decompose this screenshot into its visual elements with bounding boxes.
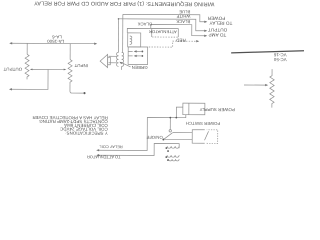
note: relay specifications text (32, 115, 108, 136)
relay contact 1 (141, 55, 143, 57)
arrow to attenuator (96, 154, 99, 156)
wire: input pot end lead to terminal dot (70, 85, 83, 94)
svg-text:TO ATTENUATOR: TO ATTENUATOR (87, 154, 121, 159)
svg-text:GREEN: GREEN (132, 65, 148, 70)
coil L1 (167, 146, 179, 148)
potentiometer R1 INPUT (69, 44, 71, 60)
potentiometer R2 OUTPUT (26, 43, 28, 54)
power supply PS1 box (183, 103, 205, 115)
svg-text:ATTENUATOR: ATTENUATOR (149, 29, 177, 34)
switch S1 blade + terminals (173, 132, 192, 134)
scan artifact: dark page rule (231, 50, 304, 53)
svg-text:LA-6: LA-6 (52, 34, 62, 39)
svg-text:RED: RED (176, 38, 186, 43)
svg-text:BLACK: BLACK (138, 22, 152, 27)
svg-text:POWER: POWER (207, 16, 225, 21)
wire: wiper link between pots (31, 68, 65, 70)
svg-text:WIRING REQUIREMENTS: (1) PAIR: WIRING REQUIREMENTS: (1) PAIR FOR AUDIO … (34, 0, 215, 7)
wire blue vertical to transformer (122, 14, 124, 52)
wire: lead to relay coil / power supply (node A) (98, 114, 186, 150)
svg-text:BLACK: BLACK (176, 19, 190, 24)
svg-text:ON/OFF: ON/OFF (146, 135, 163, 140)
resistor R3 VC volume control (270, 69, 275, 108)
svg-text:OUTPUT: OUTPUT (208, 27, 228, 32)
coil L2 (167, 155, 179, 157)
speaker LS1 (108, 57, 111, 65)
power switch box (dashed left part) (192, 130, 205, 144)
whole schematic drawn readable, page is an upside-down scan (3, 0, 305, 162)
svg-text:RELAY COIL: RELAY COIL (99, 144, 123, 149)
transformer T1 secondary winding (117, 52, 119, 66)
wire WHITE trunk + OUTPUT arrow (118, 19, 206, 31)
svg-text:VC-16: VC-16 (273, 52, 286, 57)
wire: tap to bottom rail with arrow (10, 69, 48, 89)
switch slash (205, 131, 209, 140)
relay K1 coil compartment (128, 33, 141, 47)
svg-text:INPUT: INPUT (74, 63, 88, 68)
transformer T1 primary winding (122, 52, 124, 66)
wire: lead to attenuator (node B) (98, 143, 180, 155)
svg-text:POWER SWITCH: POWER SWITCH (186, 121, 220, 126)
wire: VC wiper arrow (244, 84, 267, 86)
relay K1 coil winding (130, 36, 132, 44)
svg-text:BLUE: BLUE (179, 9, 190, 14)
wire: L-pad top rail with end arrows (10, 42, 96, 44)
transformer secondary stub (121, 66, 123, 69)
wire: white vertical to transformer + junction dot (117, 19, 119, 52)
svg-text:POWER SUPPLY: POWER SUPPLY (199, 107, 234, 112)
relay contact 2 (141, 51, 143, 53)
wire BLUE trunk + TO RELAY POWER arrow (123, 14, 207, 21)
wire power supply side feed (176, 107, 183, 118)
attenuator AT1 box (152, 28, 179, 37)
relay K1 contact compartment (128, 47, 148, 65)
svg-text:RELAY HAS A PROTECTIVE COVER: RELAY HAS A PROTECTIVE COVER (32, 115, 107, 120)
arrow relay coil (96, 149, 99, 151)
wire RED (dashed) to attenuator (148, 41, 199, 47)
speaker wires (109, 62, 117, 64)
wire BLACK trunk + TO AMP arrow (151, 24, 207, 35)
svg-text:OUTPUT: OUTPUT (3, 67, 22, 72)
wire attenuator to relay box (127, 28, 152, 33)
